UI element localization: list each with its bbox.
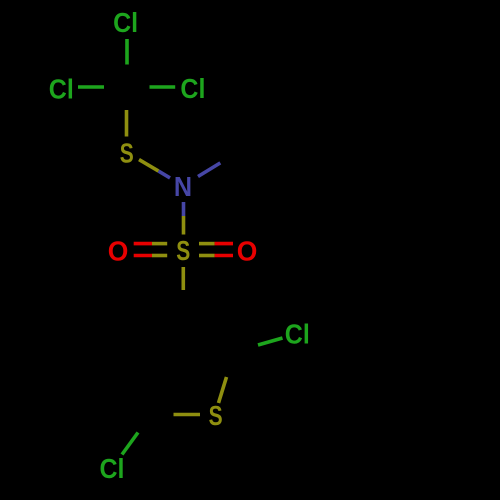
wire N-S2 bond olive half xyxy=(182,216,186,235)
svg-text:S: S xyxy=(176,235,190,266)
wire S2=O left double bond upper line xyxy=(134,242,152,246)
wire N-CH2 half-bond xyxy=(198,163,220,177)
wire C2-Cl half-bond xyxy=(258,338,283,345)
wire S2=O right double bond lower line xyxy=(199,254,215,258)
svg-text:S: S xyxy=(120,137,134,168)
wire S2=O right double bond upper line xyxy=(199,242,215,246)
svg-text:Cl: Cl xyxy=(113,7,138,38)
wire C5-Cl half-bond xyxy=(122,433,138,455)
wire C-Cl right half-bond xyxy=(150,85,176,89)
wire S2-C3 half-bond xyxy=(182,267,186,290)
wire S1-N bond blue half xyxy=(159,171,171,178)
wire S2=O left double bond lower line xyxy=(134,254,152,258)
wire N-S2 bond blue half xyxy=(182,202,186,216)
wire S1-N bond olive half xyxy=(139,160,159,172)
wire C-S1 half-bond xyxy=(125,110,129,137)
svg-text:N: N xyxy=(174,171,192,202)
svg-text:S: S xyxy=(209,400,223,431)
wire C-Cl left half-bond xyxy=(78,85,104,89)
svg-text:Cl: Cl xyxy=(49,73,74,104)
svg-text:Cl: Cl xyxy=(180,73,205,104)
wire S3-C2 half-bond xyxy=(219,377,227,403)
svg-text:Cl: Cl xyxy=(100,453,125,484)
wire C-Cl top half-bond xyxy=(125,39,129,65)
svg-text:O: O xyxy=(237,235,258,266)
svg-text:Cl: Cl xyxy=(285,318,310,349)
svg-text:O: O xyxy=(108,235,129,266)
wire S3-C5 half-bond xyxy=(174,413,201,417)
